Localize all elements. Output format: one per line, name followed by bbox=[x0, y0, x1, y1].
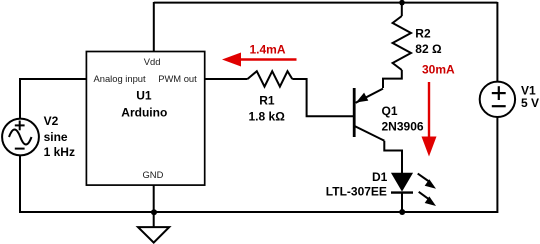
voltage source V1 bbox=[480, 82, 515, 117]
svg-text:GND: GND bbox=[143, 169, 164, 180]
svg-text:sine: sine bbox=[44, 130, 68, 144]
node top junction dot bbox=[399, 0, 405, 5]
svg-text:82 Ω: 82 Ω bbox=[415, 42, 442, 56]
wire R1 to Q1 base bbox=[292, 79, 353, 116]
label Q1 value bbox=[382, 104, 424, 134]
label D1 value bbox=[326, 170, 388, 199]
transistor Q1 bbox=[354, 88, 384, 141]
wire top rail bbox=[154, 2, 498, 4]
svg-text:PWM out: PWM out bbox=[158, 73, 197, 84]
svg-text:U1: U1 bbox=[136, 88, 152, 102]
voltage source V2 bbox=[2, 119, 39, 156]
label R1 value bbox=[249, 94, 286, 124]
wire right rail lower bbox=[496, 117, 498, 213]
svg-text:D1: D1 bbox=[372, 170, 388, 184]
wire left rail upper bbox=[20, 79, 86, 119]
svg-text:LTL-307EE: LTL-307EE bbox=[326, 185, 387, 199]
node D1 bottom junction dot bbox=[399, 209, 405, 215]
label V1 value bbox=[521, 84, 539, 111]
label V2 value bbox=[44, 114, 75, 159]
svg-text:1.8 kΩ: 1.8 kΩ bbox=[249, 109, 286, 123]
svg-text:R1: R1 bbox=[259, 94, 275, 108]
svg-text:R2: R2 bbox=[415, 26, 431, 40]
svg-text:2N3906: 2N3906 bbox=[382, 119, 424, 133]
ground bbox=[138, 227, 169, 243]
resistor R2 bbox=[393, 2, 411, 70]
wire bottom rail bbox=[19, 211, 497, 213]
op-amp U1 Arduino box bbox=[86, 52, 204, 186]
wire right rail upper bbox=[496, 2, 498, 82]
svg-text:V2: V2 bbox=[44, 114, 59, 128]
svg-text:Analog input: Analog input bbox=[94, 73, 147, 84]
wire Q1 collector to D1 bbox=[384, 141, 402, 174]
svg-text:5 V: 5 V bbox=[521, 96, 539, 110]
svg-text:30mA: 30mA bbox=[422, 63, 455, 77]
wire Vdd pin vertical bbox=[153, 2, 155, 52]
wire left rail lower bbox=[19, 155, 21, 213]
current arrow 30mA bbox=[422, 63, 456, 157]
resistor R1 bbox=[248, 71, 293, 86]
svg-text:Arduino: Arduino bbox=[121, 106, 167, 120]
svg-text:Vdd: Vdd bbox=[144, 56, 161, 67]
diode D1 LED bbox=[391, 173, 436, 212]
wire R2 to Q1 emitter bbox=[383, 70, 402, 88]
node GND junction dot bbox=[151, 209, 157, 215]
label R2 value bbox=[415, 26, 442, 56]
wire PWM out to R1 bbox=[205, 78, 248, 80]
wire GND pin bbox=[153, 185, 155, 227]
svg-text:1 kHz: 1 kHz bbox=[44, 145, 75, 159]
svg-text:Q1: Q1 bbox=[382, 104, 398, 118]
svg-text:1.4mA: 1.4mA bbox=[250, 43, 286, 57]
current arrow 1.4mA bbox=[222, 43, 297, 67]
